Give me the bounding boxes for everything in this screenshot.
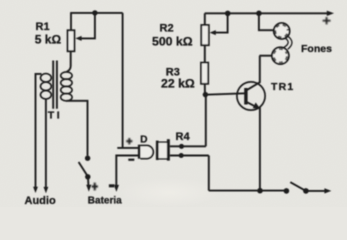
diode D package xyxy=(138,145,153,159)
transformer T1 secondary winding xyxy=(61,72,72,101)
earphone 1 xyxy=(274,23,290,39)
R4 bottom lead dot xyxy=(179,153,184,158)
resistor R3 xyxy=(201,63,208,84)
label T1 xyxy=(48,110,63,122)
label 500 kΩ xyxy=(152,35,193,49)
wire top-right rail xyxy=(205,12,329,14)
junction emitter-rail xyxy=(257,188,263,194)
wire R4 bottom lead xyxy=(170,155,209,157)
wire R2 top lead xyxy=(204,13,206,25)
bottom supply arrowhead xyxy=(324,188,331,193)
switch S2 lever xyxy=(290,182,306,191)
earphone 2 xyxy=(272,47,289,64)
svg-text:Fones: Fones xyxy=(301,43,332,55)
svg-text:R4: R4 xyxy=(176,131,191,143)
supply arrowhead xyxy=(327,11,334,16)
wire R3 bottom xyxy=(204,84,206,93)
switch S1 lever xyxy=(79,162,88,176)
svg-text:R2: R2 xyxy=(160,22,174,34)
junction base node xyxy=(203,92,208,97)
headphone cord xyxy=(284,36,292,49)
wire audio lead 1 (left arrow) xyxy=(36,74,42,188)
switch S1 top contact xyxy=(85,156,90,161)
wire R4 top to base junction xyxy=(205,95,207,147)
wire R4 top lead xyxy=(170,145,206,147)
label R3 xyxy=(166,67,180,79)
junction wiper-rail xyxy=(225,11,231,17)
wire secondary bottom lead to switch xyxy=(66,101,87,156)
wire top-left rail xyxy=(70,12,122,14)
wire secondary top lead to R1 xyxy=(66,51,70,72)
wire audio lead 2 (right arrow) xyxy=(45,100,47,189)
R1 wiper arm xyxy=(75,13,95,41)
wire collector up xyxy=(259,56,261,83)
battery minus arrowhead xyxy=(114,185,119,192)
svg-text:R1: R1 xyxy=(36,21,50,33)
svg-text:500 kΩ: 500 kΩ xyxy=(152,35,193,49)
svg-text:5 kΩ: 5 kΩ xyxy=(35,32,62,46)
wire R4 bottom down to rail xyxy=(208,156,210,191)
resistor R2 xyxy=(201,25,209,45)
transistor TR1 xyxy=(237,82,265,110)
transformer T1 primary winding xyxy=(41,74,52,99)
svg-text:Audio: Audio xyxy=(25,195,56,207)
label R4 xyxy=(176,131,191,143)
label 5 kΩ xyxy=(35,32,62,46)
wire R2 to R3 xyxy=(204,45,206,63)
label R2 xyxy=(160,22,174,34)
transformer T1 core xyxy=(53,61,57,109)
label R1 xyxy=(36,21,50,33)
label Audio xyxy=(25,195,56,207)
wire diode top lead xyxy=(117,147,138,149)
label + supply xyxy=(323,17,331,24)
junction top-left xyxy=(92,10,97,15)
junction phones feed xyxy=(256,11,262,17)
svg-text:TR1: TR1 xyxy=(271,81,294,93)
switch S1 bottom contact xyxy=(85,174,90,179)
potentiometer R1 xyxy=(68,30,75,51)
resistor R4 package xyxy=(156,139,170,160)
wire phones top feed xyxy=(259,13,274,30)
label Bateria xyxy=(88,196,122,207)
wire emitter down xyxy=(259,108,261,191)
switch S2 right contact xyxy=(303,188,309,194)
wire diode bottom lead to battery minus xyxy=(116,156,138,188)
label Fones xyxy=(301,43,332,55)
battery plus arrowhead xyxy=(86,185,91,192)
label - diode xyxy=(128,159,134,161)
label 22 kΩ xyxy=(161,77,195,91)
label TR1 xyxy=(271,81,294,93)
switch S2 left contact xyxy=(284,188,290,194)
wire to supply arrow bottom xyxy=(306,190,326,192)
label + battery xyxy=(92,183,98,191)
audio arrowhead 1 xyxy=(33,187,38,193)
audio arrowhead 2 xyxy=(44,187,49,193)
label D xyxy=(140,135,147,146)
wire R1 top lead xyxy=(70,13,72,30)
R2 wiper xyxy=(210,13,228,35)
wire base xyxy=(205,93,245,94)
bottom rail xyxy=(209,190,287,192)
wire phones bottom link xyxy=(259,55,272,57)
label + diode xyxy=(126,138,132,144)
svg-text:D: D xyxy=(140,135,147,146)
svg-text:Bateria: Bateria xyxy=(88,196,122,207)
svg-text:TI: TI xyxy=(48,110,63,122)
wire left net down to diode xyxy=(122,13,124,148)
label - battery xyxy=(109,184,115,187)
R4 top lead dot xyxy=(179,144,184,149)
battery plus lead xyxy=(87,177,90,187)
svg-text:22 kΩ: 22 kΩ xyxy=(161,77,195,91)
